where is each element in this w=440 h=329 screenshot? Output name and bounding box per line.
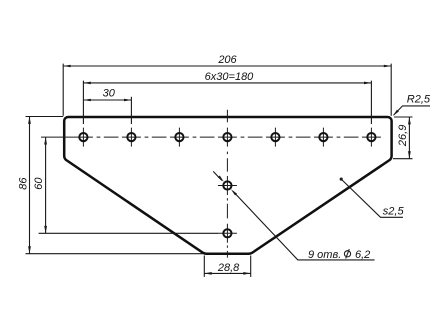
dimension 26,9: extension lines <box>394 116 413 118</box>
vertical centerline through hole column <box>226 110 228 258</box>
leader for 9 holes dia 6,2: line through middle hole <box>213 171 374 260</box>
dimension 206: extension lines <box>62 64 64 116</box>
svg-text:s2,5: s2,5 <box>383 205 405 217</box>
dimension 28,8: dimension line <box>204 272 250 274</box>
hole center cross ticks <box>74 128 381 243</box>
dimension 86: dimension line <box>29 117 31 254</box>
hole 2 (top row) <box>127 133 135 141</box>
hole 3 (top row) <box>175 133 183 141</box>
dimension 60: extension line to lower hole <box>39 232 218 234</box>
dimension 6x30=180: dimension line <box>83 82 371 84</box>
hole 8 (middle) <box>223 181 231 189</box>
dimension 28,8: extension lines <box>203 256 205 277</box>
diameter symbol <box>344 249 350 258</box>
svg-text:6,2: 6,2 <box>355 249 370 261</box>
hole 1 (top row) <box>79 133 87 141</box>
dimension 26,9: dimension line <box>408 117 410 159</box>
svg-text:R2,5: R2,5 <box>407 94 431 106</box>
hole 5 (top row) <box>271 133 279 141</box>
svg-text:9 отв.: 9 отв. <box>308 249 341 261</box>
svg-text:60: 60 <box>33 177 45 190</box>
dimension 6x30=180: extension lines <box>82 81 84 124</box>
svg-text:28,8: 28,8 <box>217 262 240 274</box>
hole 4 (top row) <box>223 133 231 141</box>
hole 9 (bottom) <box>223 229 231 237</box>
svg-text:26,9: 26,9 <box>397 125 409 147</box>
dimension 30: extension line <box>130 97 132 124</box>
part outline: trapezoidal plate <box>64 117 391 254</box>
svg-text:86: 86 <box>17 177 29 190</box>
dimension 30: dimension line <box>83 99 131 101</box>
svg-text:30: 30 <box>103 88 116 100</box>
dimension 60: dimension line <box>45 137 47 233</box>
leader s2,5 (sheet thickness) <box>341 179 403 217</box>
svg-text:206: 206 <box>217 54 237 66</box>
hole 7 (top row) <box>367 133 375 141</box>
svg-text:6x30=180: 6x30=180 <box>205 71 255 83</box>
horizontal centerline through hole row <box>41 136 359 138</box>
dimension 206: dimension line <box>63 65 391 67</box>
dimension 86: extension lines <box>26 116 64 118</box>
leader R2,5 (top-right corner radius) <box>394 106 430 115</box>
hole 6 (top row) <box>319 133 327 141</box>
